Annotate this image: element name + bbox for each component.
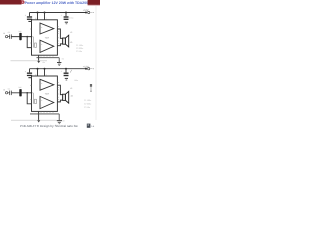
slash mark near cap (2): [70, 70, 71, 73]
node dot at pin 1 (2): [31, 92, 33, 94]
svg-text:2u2: 2u2: [18, 30, 21, 33]
output wire lower: [57, 44, 62, 46]
pin numbers top: [35, 17, 46, 20]
rail junction dot B: [44, 12, 46, 14]
ground bus wire (2): [30, 113, 59, 115]
cap C5 ground (2): [65, 78, 68, 81]
right margin separator line: [95, 6, 97, 120]
terminal tail dash (2): [90, 68, 92, 70]
decoupling cap C3 plates: [27, 16, 32, 20]
output wire upper: [57, 29, 62, 38]
op-amp IC U1 box: [32, 20, 58, 55]
node dot at pin 1: [31, 36, 33, 38]
A2 polarity marks: [41, 43, 43, 51]
supply cap C5 plates: [64, 16, 69, 20]
svg-text:100n: 100n: [74, 79, 78, 82]
header left maroon bar: [0, 0, 22, 5]
svg-text:0.1: 0.1: [8, 31, 11, 34]
svg-text:C3 10u: C3 10u: [84, 106, 90, 109]
IC pin 9 supply wire: [37, 13, 39, 20]
svg-text:C2 220u: C2 220u: [84, 103, 91, 106]
A3 polarity marks: [41, 82, 43, 90]
svg-text:0V: 0V: [62, 119, 65, 122]
IC internal pin rail: [32, 37, 34, 48]
ground triangle marker (2): [37, 120, 40, 122]
node dot input branch (2): [26, 92, 28, 94]
IC left edge pin ticks: [30, 29, 31, 43]
node dot input branch: [26, 36, 28, 38]
svg-text:+12V: +12V: [83, 65, 89, 68]
terminal tail dash: [90, 12, 92, 14]
branch wire to A2 input: [27, 37, 31, 48]
terminal tail dot: [93, 12, 94, 13]
IC internal resistor: [35, 43, 37, 47]
svg-text:0V: 0V: [62, 58, 65, 61]
A4 polarity marks: [41, 99, 43, 107]
+12V rail wire: [30, 12, 87, 14]
svg-text:4Ω: 4Ω: [70, 41, 73, 44]
input return wire (faint): [11, 60, 48, 62]
cap C3 ground (2): [28, 77, 31, 78]
svg-text:C1 100n: C1 100n: [76, 44, 83, 47]
svg-text:Ax: Ax: [43, 61, 45, 64]
input wire: [11, 36, 31, 38]
speaker LS2 cone: [66, 91, 69, 103]
A1 polarity marks: [41, 26, 43, 34]
svg-text:La: La: [91, 125, 94, 128]
cap C5 ground: [65, 22, 68, 24]
input terminal IN: [5, 35, 7, 37]
IC right edge pin ticks (2): [57, 83, 58, 100]
decoupling cap C3 lead (2): [29, 69, 31, 73]
output wire lower (2): [57, 100, 62, 102]
svg-text:4Ω: 4Ω: [71, 95, 74, 98]
supply cap C5 lead: [65, 13, 67, 17]
supply cap C5 lead (2): [65, 69, 67, 73]
header right maroon bar: [88, 0, 100, 5]
rail junction dot C: [65, 12, 67, 14]
output wire upper (2): [57, 85, 62, 94]
svg-text:LS: LS: [70, 87, 73, 90]
branch wire to A4 input: [27, 93, 31, 104]
speaker LS1 coil: [63, 38, 66, 44]
IC left edge pin ticks (2): [30, 85, 31, 99]
svg-text:0.1: 0.1: [8, 87, 11, 90]
svg-text:+: +: [25, 14, 27, 17]
series component C2 (dark electrolytic): [19, 33, 21, 40]
node on +12V rail (2): [85, 68, 87, 70]
ground drop wire: [58, 58, 60, 62]
svg-text:2u2: 2u2: [18, 86, 21, 89]
speaker LS2 coil: [63, 94, 66, 100]
rail junction dot A (2): [37, 68, 39, 70]
series component C2 dark electrolytic (2): [19, 89, 21, 96]
svg-text:C3 10u: C3 10u: [76, 50, 82, 53]
node on +12V rail: [85, 12, 87, 14]
+12V terminal (2): [88, 68, 90, 70]
IC bottom edge pin ticks (2): [41, 111, 53, 112]
svg-text:+: +: [61, 14, 63, 17]
right margin probe element: [90, 84, 92, 92]
caption icon: [87, 124, 91, 128]
input return wire 2 (faint): [11, 119, 57, 121]
op-amp A3: [40, 79, 54, 90]
op-amp A2: [40, 40, 54, 52]
svg-text:PnB AMLFTR Design by Sbextra: PnB AMLFTR Design by Sbextral satu bw: [20, 124, 79, 128]
op-amp A4: [40, 96, 54, 108]
input terminal IN (2): [5, 92, 7, 94]
ground symbol G2: [57, 120, 62, 124]
op-amp IC U2 box: [32, 76, 58, 111]
input wire (2): [11, 92, 31, 94]
svg-text:C2 220u: C2 220u: [76, 47, 83, 50]
parts list text S2: [84, 99, 91, 109]
svg-text:470u: 470u: [69, 17, 73, 20]
header logo dot: [21, 0, 25, 4]
svg-text:TDA: TDA: [45, 93, 50, 96]
header right underline: [88, 4, 100, 7]
svg-text:C1 100n: C1 100n: [84, 99, 91, 102]
input coupling cap C1: [10, 34, 12, 39]
decoupling cap C3 plates (2): [27, 73, 32, 77]
decoupling cap C3 lead: [29, 13, 31, 17]
input terminal lead: [8, 36, 10, 38]
cap C3 ground: [28, 21, 31, 22]
IC pin 7 supply wire (2): [44, 69, 46, 76]
pin numbers top (2): [35, 73, 46, 76]
input terminal lead (2): [8, 92, 10, 94]
parts list text S1: [76, 44, 83, 53]
speaker LS1 cone: [66, 35, 69, 47]
IC pin 9 supply wire (2): [37, 69, 39, 76]
ground symbol G1: [57, 62, 61, 66]
ground triangle marker: [37, 61, 40, 63]
IC internal resistor (2): [35, 99, 37, 103]
IC pin 7 supply wire: [44, 13, 46, 20]
op-amp A1: [40, 23, 54, 34]
supply cap C5 plates (2): [64, 73, 69, 77]
rail junction dot C (2): [65, 68, 67, 70]
svg-text:IN: IN: [3, 88, 6, 91]
input coupling cap C1 (2): [10, 91, 12, 96]
IC ground pin wire (2): [38, 111, 40, 120]
terminal tail dot (2): [93, 68, 94, 69]
svg-text:LS: LS: [70, 31, 73, 34]
IC internal pin rail (2): [32, 93, 34, 104]
svg-text:+12V: +12V: [83, 9, 89, 12]
svg-text:+: +: [61, 70, 63, 73]
IC right edge pin ticks: [57, 26, 58, 43]
svg-text:IN: IN: [3, 32, 6, 35]
rail junction dot A: [37, 12, 39, 14]
svg-text:+: +: [25, 70, 27, 73]
+12V rail wire (2): [30, 68, 87, 70]
+12V terminal: [88, 11, 90, 13]
ground bus wire: [37, 57, 60, 59]
IC bottom edge pin ticks: [41, 55, 53, 56]
rail junction dot B (2): [44, 68, 46, 70]
svg-text:TDA: TDA: [45, 37, 50, 40]
ground drop wire (2): [58, 114, 60, 120]
IC ground pin wire: [38, 55, 40, 61]
